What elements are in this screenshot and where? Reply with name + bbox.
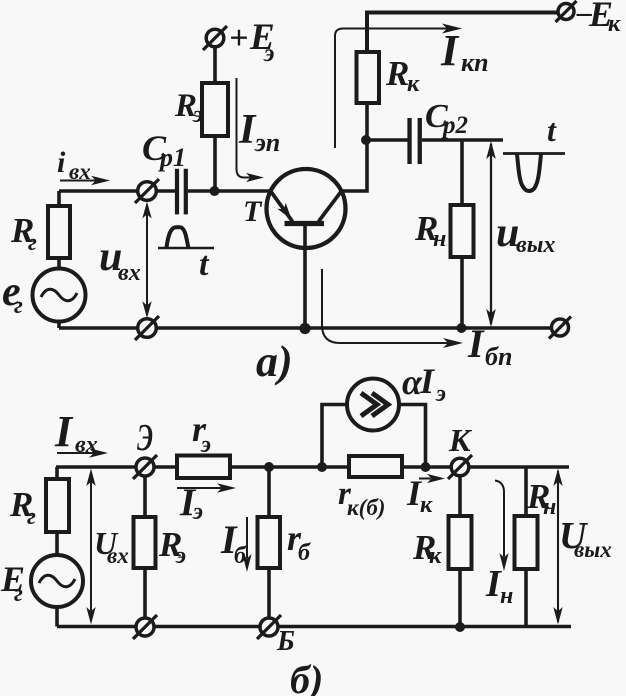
svg-text:t: t — [199, 246, 210, 283]
svg-text:н: н — [500, 583, 513, 609]
svg-text:б: б — [234, 543, 247, 569]
svg-text:К: К — [448, 422, 473, 458]
svg-text:р1: р1 — [158, 143, 186, 172]
svg-text:к: к — [420, 492, 433, 518]
svg-text:I: I — [440, 26, 460, 75]
svg-text:б): б) — [290, 657, 323, 696]
svg-text:T: T — [243, 195, 263, 228]
svg-text:I: I — [54, 407, 74, 456]
svg-text:н: н — [433, 226, 446, 252]
svg-text:к: к — [407, 71, 420, 97]
svg-text:э: э — [192, 499, 203, 525]
svg-text:вых: вых — [574, 537, 612, 562]
svg-text:э: э — [192, 102, 203, 128]
svg-text:i: i — [57, 146, 66, 179]
svg-text:вых: вых — [516, 232, 555, 258]
svg-text:вх: вх — [118, 260, 141, 286]
svg-text:кп: кп — [461, 48, 489, 77]
svg-text:б: б — [298, 540, 311, 566]
svg-text:р2: р2 — [441, 112, 468, 139]
svg-text:Б: Б — [276, 626, 295, 657]
svg-text:э: э — [200, 432, 211, 458]
svg-text:э: э — [263, 40, 274, 67]
svg-text:бп: бп — [485, 342, 512, 371]
svg-text:t: t — [547, 112, 557, 148]
svg-text:э: э — [175, 543, 186, 569]
svg-text:вх: вх — [75, 432, 98, 458]
svg-text:вх: вх — [107, 543, 129, 568]
svg-text:R: R — [385, 54, 409, 93]
svg-text:к: к — [608, 11, 621, 37]
svg-text:I: I — [419, 361, 436, 401]
svg-text:эп: эп — [254, 128, 280, 157]
svg-text:вх: вх — [69, 159, 91, 184]
svg-text:к: к — [429, 543, 442, 569]
svg-text:г: г — [14, 293, 23, 319]
svg-text:+: + — [229, 20, 248, 57]
svg-text:Э: Э — [137, 417, 153, 459]
svg-text:н: н — [543, 494, 556, 520]
svg-text:к(б): к(б) — [347, 495, 385, 520]
svg-text:а): а) — [256, 337, 293, 386]
svg-text:г: г — [28, 230, 37, 256]
svg-text:г: г — [27, 504, 36, 530]
svg-text:г: г — [14, 581, 23, 607]
svg-text:э: э — [435, 381, 446, 407]
svg-text:I: I — [467, 321, 485, 366]
